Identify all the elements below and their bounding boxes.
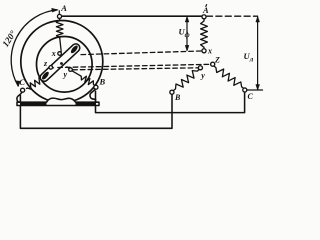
node C' <box>243 88 247 92</box>
contact y stub <box>67 67 69 69</box>
node z' <box>211 62 215 66</box>
node A' <box>202 15 206 19</box>
svg-text:C: C <box>248 92 254 101</box>
wire from contact y to section B <box>72 71 80 76</box>
svg-text:x: x <box>207 47 212 56</box>
base left pad <box>20 102 47 105</box>
svg-text:C: C <box>19 77 25 87</box>
winding B: resistor y'-B' <box>174 70 199 91</box>
wire from section A to contact x <box>60 39 61 52</box>
node B' <box>170 90 174 94</box>
wire C' to U_l reference <box>247 89 263 91</box>
svg-text:B: B <box>99 77 106 87</box>
pivot dot <box>60 62 63 65</box>
outer circle (stator) <box>21 21 103 103</box>
svg-text:y: y <box>200 71 205 80</box>
node x' <box>202 49 206 53</box>
terminal node C (device) <box>21 88 25 92</box>
wire: bottom wire device-C to schematic B <box>20 94 172 128</box>
U_line dimension line <box>257 17 259 90</box>
brush lower end <box>41 71 50 81</box>
contact x <box>58 52 62 56</box>
dashed link x (slider) to x' <box>81 51 202 55</box>
svg-text:x: x <box>51 49 56 58</box>
svg-text:B: B <box>174 93 181 102</box>
terminal B lug hook <box>90 89 96 102</box>
contact z stub <box>52 66 53 68</box>
terminal node A (device) <box>57 14 61 18</box>
terminal node B (device) <box>94 85 98 89</box>
contact z <box>49 66 53 70</box>
resistor section A (top, inside ring) <box>56 19 63 38</box>
label A' accent <box>206 4 207 7</box>
base of rheostat <box>17 98 99 105</box>
arc arrowhead at C end <box>16 81 20 87</box>
slider bar (brush arm) <box>39 42 82 83</box>
winding A: resistor A'-x' <box>201 20 208 49</box>
U_phase dimension line <box>186 17 188 50</box>
terminal C lug hook <box>17 92 22 102</box>
base right pad <box>76 102 97 105</box>
contact y <box>69 68 73 72</box>
resistor section C (lower-left) <box>27 78 44 90</box>
U_line arrow down <box>256 85 260 90</box>
dashed link y (slider) to y' <box>73 68 199 70</box>
svg-text:Uф: Uф <box>179 27 190 39</box>
dashed wire A' to U_l dimension <box>207 15 258 17</box>
brush upper end <box>70 44 79 54</box>
inner circle (rotor disc) <box>37 37 93 93</box>
svg-text:A: A <box>60 3 67 13</box>
U_phase arrow up <box>185 17 189 22</box>
wire: device-B to schematic C <box>96 91 245 113</box>
svg-text:Z: Z <box>214 56 220 65</box>
U_phase arrow down <box>185 45 189 50</box>
arc arrowhead at A end <box>52 8 58 12</box>
winding C: resistor z'-C' <box>215 67 244 89</box>
dashed link z (slider) to z' <box>58 64 211 67</box>
top wire A to A' <box>62 15 202 17</box>
node y' <box>198 66 202 70</box>
terminal A tick <box>58 11 60 15</box>
svg-text:Uл: Uл <box>244 51 254 63</box>
U_line arrow up <box>256 17 260 22</box>
120 degree arc <box>11 10 57 86</box>
svg-text:y: y <box>63 70 68 79</box>
wire from section C to slider end <box>44 77 46 78</box>
resistor section B (lower-right) <box>81 76 95 85</box>
